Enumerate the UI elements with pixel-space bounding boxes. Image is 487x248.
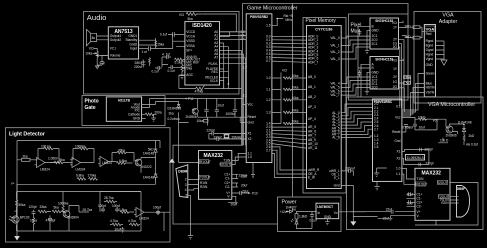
transistor Q5 2N2222 — [135, 159, 152, 169]
svg-text:+12v: +12v — [280, 210, 287, 214]
resistor 15k vertical — [155, 41, 165, 47]
LED D11 power — [291, 219, 298, 226]
wire photogate top rail — [197, 99, 244, 118]
resistor R 1.05k interstage — [48, 157, 73, 164]
ground mic — [180, 74, 185, 79]
wire reset note — [272, 19, 283, 26]
svg-text:ADR_7: ADR_7 — [308, 60, 319, 64]
svg-text:VCi: VCi — [392, 59, 397, 63]
svg-text:MAX232: MAX232 — [422, 171, 442, 177]
capacitor mux bypass a — [358, 29, 362, 36]
svg-text:ISD1420: ISD1420 — [192, 23, 212, 29]
svg-text:20uf: 20uf — [231, 203, 237, 207]
svg-text:SN74HC153: SN74HC153 — [375, 57, 393, 61]
svg-text:6.8ka: 6.8ka — [76, 173, 84, 177]
svg-text:R2IN: R2IN — [441, 201, 449, 205]
wire gnd2/standby net — [139, 38, 173, 49]
svg-text:Gnd: Gnd — [334, 184, 340, 188]
svg-text:BP103: BP103 — [20, 216, 30, 220]
vga adapter section box — [414, 12, 481, 104]
capacitor 220uf mcu bottom — [239, 163, 256, 178]
svg-text:VCi: VCi — [179, 13, 184, 17]
svg-text:2G: 2G — [393, 45, 398, 49]
ground vga serial — [374, 168, 387, 177]
svg-text:AB_2: AB_2 — [308, 95, 316, 99]
svg-text:DB9M: DB9M — [178, 170, 187, 174]
wire photogate bottom rail — [198, 117, 244, 125]
wire serial vga — [402, 168, 415, 184]
svg-text:470ka: 470ka — [195, 89, 204, 93]
svg-text:AL_8: AL_8 — [332, 136, 340, 140]
svg-text:2kD: 2kD — [469, 134, 475, 138]
svg-text:MAX232: MAX232 — [204, 153, 224, 159]
wire agc loop — [179, 75, 242, 89]
wire mux select lines — [358, 26, 370, 97]
svg-text:0.1uf: 0.1uf — [160, 33, 167, 37]
svg-text:1.05kV: 1.05kV — [48, 157, 59, 161]
wire feedback box — [100, 192, 141, 213]
svg-text:VCCA: VCCA — [186, 35, 196, 39]
ground arrow main — [350, 221, 356, 225]
power section box — [278, 197, 342, 232]
capacitor mux bypass b — [358, 70, 362, 77]
GLOBAL WIRES — [15, 211, 357, 226]
svg-text:100pf: 100pf — [153, 206, 161, 210]
svg-text:Pixel Memory: Pixel Memory — [306, 18, 337, 24]
svg-text:2N2222: 2N2222 — [141, 165, 152, 169]
connector J2 VGA — [424, 25, 435, 97]
svg-text:1N4007: 1N4007 — [286, 205, 297, 209]
svg-text:10k D: 10k D — [440, 138, 449, 142]
svg-text:5.1ka: 5.1ka — [175, 61, 183, 65]
svg-text:VSYN: VSYN — [426, 91, 435, 95]
svg-text:2N3906: 2N3906 — [186, 115, 197, 119]
PHOTOGATE INTERNALS — [106, 97, 243, 163]
svg-text:1.8kD: 1.8kD — [299, 215, 308, 219]
wire val4-7 to mux2 — [341, 77, 370, 95]
optocoupler U4 H21LTB — [106, 97, 141, 121]
svg-text:8o: 8o — [92, 36, 96, 40]
svg-text:1G: 1G — [393, 80, 398, 84]
capacitor 20uf v- — [228, 196, 238, 206]
svg-text:Input: Input — [130, 47, 137, 51]
resistor 5.1k mic — [175, 58, 186, 64]
svg-text:10uf: 10uf — [218, 103, 224, 107]
svg-text:Standby: Standby — [125, 38, 137, 42]
svg-text:AP_3: AP_3 — [308, 105, 316, 109]
capacitor 10uf c2 vga — [407, 200, 416, 206]
op-amp U5C LM324 — [98, 157, 117, 167]
svg-text:1.0: 1.0 — [248, 155, 253, 159]
svg-text:2C0: 2C0 — [372, 86, 378, 90]
svg-text:Gnd: Gnd — [248, 121, 254, 125]
wire max232 to db9f — [450, 197, 456, 203]
svg-text:V-: V- — [417, 214, 420, 218]
svg-text:Light Detector: Light Detector — [9, 132, 45, 138]
svg-text:VSSD: VSSD — [186, 39, 195, 43]
svg-text:GND: GND — [324, 215, 332, 219]
svg-text:28.7ka: 28.7ka — [104, 196, 114, 200]
svg-text:VGA Microcontroller: VGA Microcontroller — [428, 102, 475, 108]
svg-text:T1IN: T1IN — [417, 177, 425, 181]
svg-text:1.5: 1.5 — [266, 24, 271, 28]
wire green blue sync — [402, 74, 425, 117]
pixel memory section box — [303, 18, 346, 194]
connector J3 DB9F — [457, 186, 470, 218]
svg-text:4. 7uf: 4. 7uf — [162, 53, 170, 57]
svg-text:1.1: 1.1 — [396, 172, 401, 176]
svg-text:Hgnd: Hgnd — [426, 53, 434, 57]
wire mid rail — [17, 184, 156, 190]
transistor Q3 2N3906 — [186, 108, 199, 119]
capacitor C 1uf input — [142, 46, 156, 54]
resistor RN 10k pullup4 — [272, 107, 307, 114]
svg-text:SN74HC153: SN74HC153 — [375, 19, 393, 23]
POWER INTERNALS — [280, 203, 367, 228]
svg-text:X2: X2 — [396, 156, 400, 160]
svg-text:10ka: 10ka — [85, 52, 92, 56]
capacitor 20uf c2 — [232, 183, 248, 187]
wire reset net — [415, 119, 464, 134]
wire pot to volume pin — [97, 55, 108, 66]
op-amp U5A LM324 — [35, 158, 51, 172]
svg-text:DB9F: DB9F — [457, 187, 465, 191]
svg-text:2C1: 2C1 — [372, 42, 378, 46]
audio section box — [84, 12, 240, 95]
svg-text:10ka: 10ka — [197, 119, 204, 123]
wire xtal gnd — [208, 134, 210, 140]
resistor RN 10k pullup3 — [272, 96, 307, 101]
svg-text:5ka: 5ka — [188, 17, 193, 21]
capacitor via 0.2uf — [464, 142, 478, 146]
SECTION_POWER — [278, 197, 342, 232]
svg-text:AB_1: AB_1 — [308, 85, 316, 89]
svg-text:10ka: 10ka — [292, 74, 299, 78]
svg-text:AP_4: AP_4 — [308, 117, 316, 121]
svg-text:0.7: 0.7 — [266, 59, 271, 63]
PIXEL MEMORY INTERNALS — [307, 26, 378, 217]
ground below max232 — [188, 232, 193, 240]
svg-text:2ka: 2ka — [23, 155, 28, 159]
svg-text:10ka: 10ka — [292, 96, 299, 100]
resistor RN 10k pullup5 — [272, 119, 307, 125]
svg-text:28.7ka: 28.7ka — [82, 208, 92, 212]
ground mux2 — [365, 72, 370, 94]
resistor R 1.5k term b — [403, 81, 411, 85]
svg-text:1N4148: 1N4148 — [143, 176, 154, 180]
svg-text:A7: A7 — [214, 56, 218, 60]
capacitor 220pf xtal bottom — [402, 150, 434, 167]
svg-text:GND: GND — [133, 117, 141, 121]
resistor R cathode 200 — [142, 110, 162, 115]
svg-text:GND: GND — [372, 29, 380, 33]
resistor R 2k red b — [399, 28, 423, 39]
svg-text:C2-: C2- — [417, 205, 422, 209]
svg-text:Bgnd: Bgnd — [426, 44, 434, 48]
dual-port RAM U7 CY7C136 — [307, 26, 342, 189]
svg-text:20MHz: 20MHz — [232, 135, 243, 139]
wire PLAYL to mcu — [220, 64, 247, 89]
power arrow serial — [169, 159, 175, 163]
capacitor 220pf xtal1 — [207, 129, 247, 136]
IC U11 MAX232 — [415, 168, 450, 220]
diode D10 1N4007 — [280, 205, 297, 214]
capacitor 22uf v+ — [232, 189, 258, 195]
capacitor 22uf c1 — [232, 174, 248, 178]
crystal Y2 11.0592MHz — [405, 155, 424, 161]
wire regulator out — [339, 211, 366, 213]
svg-text:VAL_3: VAL_3 — [330, 57, 340, 61]
op-amp U5D LM324 — [134, 208, 152, 221]
svg-text:SP+: SP+ — [186, 48, 192, 52]
wire serial to MAX232 — [232, 153, 246, 164]
svg-text:R2IN: R2IN — [200, 185, 208, 189]
wire bus P0 to pixel memory — [272, 36, 307, 62]
wire r2out loop — [415, 183, 478, 226]
svg-text:0.1uf: 0.1uf — [310, 218, 317, 222]
resistor R 6.8k — [117, 159, 133, 165]
svg-text:10ka: 10ka — [292, 109, 299, 113]
wire xtal X1 X2 — [245, 134, 247, 139]
photo gate section box — [82, 96, 165, 126]
VGA MCU INTERNALS — [341, 99, 478, 225]
svg-text:Vcc: Vcc — [248, 103, 254, 107]
SECTION_VGAMCU — [347, 97, 484, 230]
resistor R 5k top — [186, 13, 202, 22]
wire mux vcc stubs — [399, 21, 404, 61]
capacitor 220pf xtal top — [402, 147, 433, 151]
resistor R 4.7k b — [128, 219, 140, 226]
wire vga grounds — [436, 41, 445, 60]
wire collector rail — [141, 141, 156, 185]
diode D9 IN4148 — [458, 120, 472, 134]
svg-text:1000uf: 1000uf — [226, 112, 236, 116]
svg-text:X1: X1 — [248, 132, 252, 136]
svg-text:PLAYL: PLAYL — [209, 62, 219, 66]
capacitor 220pf xtal2 — [209, 135, 246, 141]
resistor R 10k base — [438, 138, 449, 143]
diode D 1N4148 lower — [143, 171, 157, 180]
svg-text:1N4148: 1N4148 — [143, 152, 154, 156]
svg-text:Vo: Vo — [334, 211, 338, 215]
resistor 1k vertical — [149, 58, 151, 66]
mux U9 SN74HC153 — [370, 57, 399, 90]
wire mic nets — [162, 57, 185, 67]
svg-text:XCLK: XCLK — [210, 79, 219, 83]
capacitor 0.1uf power — [310, 212, 317, 223]
svg-text:Reset: Reset — [392, 130, 400, 134]
capacitor 10uf c1 vga — [407, 192, 416, 198]
SECTION_VGAADAPT — [414, 12, 481, 104]
svg-text:1.1: 1.1 — [266, 88, 271, 92]
svg-text:4700pf: 4700pf — [46, 219, 56, 223]
wire vcc to pot — [94, 49, 98, 52]
svg-text:V-: V- — [227, 195, 230, 199]
svg-text:B: B — [372, 24, 374, 28]
wire bp103 junction — [15, 210, 18, 212]
vga microcontroller section box — [347, 97, 484, 230]
svg-text:GND: GND — [372, 70, 380, 74]
svg-text:22uf: 22uf — [241, 175, 247, 179]
svg-text:AB_0: AB_0 — [308, 75, 316, 79]
svg-text:VCi: VCi — [392, 21, 397, 25]
GAME MCU INTERNALS — [169, 14, 307, 239]
capacitor .1uf — [97, 55, 108, 65]
middle group top border — [293, 4, 409, 15]
capacitor 220uf coupling — [134, 60, 145, 70]
wire ram gnd — [341, 171, 377, 217]
svg-text:E_W: E_W — [308, 176, 315, 180]
svg-text:22uf: 22uf — [242, 189, 248, 193]
capacitor 0.1uf VCCD — [160, 32, 184, 37]
svg-text:P10: P10 — [252, 191, 258, 195]
wire bottom rail — [17, 212, 170, 231]
svg-text:1.5: 1.5 — [374, 145, 379, 149]
diode D 1N4148 upper — [143, 146, 157, 156]
wire mcu left stubs — [240, 105, 246, 123]
wire top rail — [17, 141, 160, 232]
svg-text:AGC: AGC — [186, 73, 194, 77]
resistor R 1.5k term a — [403, 75, 411, 79]
svg-text:1.0: 1.0 — [266, 76, 271, 80]
ground photogate — [142, 114, 156, 121]
svg-text:220pf: 220pf — [426, 162, 434, 166]
svg-text:HSYN: HSYN — [426, 86, 436, 90]
ground vga mcu — [374, 181, 379, 190]
crystal Y1 20MHz — [223, 134, 242, 140]
svg-text:CY7C136: CY7C136 — [315, 27, 333, 32]
svg-text:2G: 2G — [393, 85, 398, 89]
svg-text:Red: Red — [426, 32, 432, 36]
regulator U12 LM7805CT — [316, 203, 339, 219]
svg-text:D1N4148: D1N4148 — [168, 106, 182, 110]
svg-text:Vcc: Vcc — [395, 116, 401, 120]
capacitor 0.1uf lower — [152, 66, 162, 74]
second stage rail — [17, 192, 141, 232]
svg-text:VCi: VCi — [282, 69, 287, 73]
svg-text:10uf: 10uf — [419, 125, 425, 129]
wire speaker to U2 — [97, 36, 109, 40]
svg-text:Rgnd: Rgnd — [426, 39, 434, 43]
microcontroller U10 P89V51RBC — [373, 99, 402, 181]
wire A3-A7 vertical stubs — [224, 43, 246, 145]
resistor R 10k vertical — [30, 215, 37, 231]
resistor R 10k reset — [402, 115, 438, 122]
resistor R 1.8k power — [295, 212, 308, 220]
svg-text:5ka: 5ka — [54, 206, 59, 210]
ground vga — [441, 60, 447, 65]
svg-text:0.2ufnos: 0.2ufnos — [168, 117, 181, 121]
svg-text:2ka: 2ka — [169, 112, 174, 116]
svg-text:C2-: C2- — [225, 185, 230, 189]
capacitor 0.1uf mic — [168, 65, 176, 73]
svg-text:X1: X1 — [396, 150, 400, 154]
svg-text:LM324: LM324 — [40, 168, 50, 172]
wire 12v to regulator — [296, 211, 316, 213]
capacitor 0.2uf photogate — [168, 116, 199, 162]
svg-text:.1 uf: .1 uf — [98, 61, 104, 65]
resistor R 4.7k a — [110, 219, 123, 226]
svg-text:Output2: Output2 — [110, 38, 122, 42]
wire vcc rail right and down — [203, 14, 237, 32]
microcontroller U1 P89V51RB2 — [246, 14, 272, 163]
svg-text:Audio: Audio — [87, 13, 107, 22]
ground audio pot — [95, 66, 99, 69]
resistor R 2k input — [17, 155, 37, 162]
svg-text:VGA: VGA — [426, 27, 435, 32]
svg-text:X2: X2 — [248, 137, 252, 141]
node P11 — [179, 97, 197, 101]
SECTION_GAMEMCU — [173, 4, 408, 225]
SECTION_PIXELMEM — [303, 18, 346, 194]
svg-text:VAL_0: VAL_0 — [330, 36, 340, 40]
resistor R 33k — [38, 205, 51, 213]
svg-text:VGA: VGA — [442, 13, 454, 19]
wire VSSD VSSA rail — [173, 34, 186, 48]
wire db9m to max232 — [188, 179, 199, 231]
svg-text:R2OUT: R2OUT — [437, 181, 448, 185]
svg-text:2.7: 2.7 — [374, 127, 379, 131]
svg-text:E_L: E_L — [334, 176, 340, 180]
svg-text:3.1: 3.1 — [243, 94, 248, 98]
svg-text:VAL_2: VAL_2 — [330, 50, 340, 54]
wire control lines to pixel memory — [272, 147, 307, 178]
capacitor 220uf ram — [341, 166, 355, 173]
svg-text:1.3: 1.3 — [266, 111, 271, 115]
capacitor 10uf bottom — [115, 227, 125, 232]
resistor R 2k vga — [463, 134, 475, 142]
svg-text:50ka: 50ka — [19, 203, 26, 207]
resistor RN 10k pullup1 — [272, 74, 307, 79]
svg-text:1.7: 1.7 — [243, 66, 248, 70]
svg-text:1.0: 1.0 — [396, 167, 401, 171]
svg-text:5: 5 — [186, 193, 188, 197]
wires A0-A2 to MCU — [220, 32, 247, 39]
resistor R 100k feedback1 — [38, 145, 59, 163]
connector J1 DB9M — [176, 165, 188, 198]
svg-text:VC1: VC1 — [110, 47, 116, 51]
svg-text:4.7ka: 4.7ka — [110, 219, 118, 223]
svg-text:LM7805CT: LM7805CT — [317, 205, 333, 209]
svg-text:v+: v+ — [11, 182, 15, 186]
wire ISD supply pins — [220, 32, 237, 37]
svg-text:0.1uf: 0.1uf — [152, 70, 159, 74]
svg-text:10ka: 10ka — [292, 120, 299, 124]
wire AL bus into mcu — [341, 104, 372, 138]
svg-text:Game Microcontroller: Game Microcontroller — [247, 6, 298, 12]
IC U6 MAX232 — [199, 151, 232, 200]
svg-text:4.7ka: 4.7ka — [128, 219, 136, 223]
resistor R 1.8k — [119, 208, 134, 214]
svg-text:10ka: 10ka — [292, 86, 299, 90]
resistor RN 10k pullup2 — [272, 86, 307, 91]
svg-text:Reset: Reset — [248, 115, 256, 119]
resistor R 30k — [112, 149, 134, 162]
ground power — [325, 219, 330, 225]
svg-text:REC: REC — [211, 70, 218, 74]
resistor 470k mic bias — [181, 65, 192, 74]
wire power bottom — [297, 219, 313, 228]
wire input line — [139, 48, 149, 50]
potentiometer R volume 10k — [85, 51, 98, 57]
SECTION_PHOTOGATE — [82, 96, 165, 126]
capacitor 100pf out — [153, 206, 161, 216]
resistor R 28.7k left — [79, 206, 92, 213]
svg-text:3: 3 — [185, 183, 187, 187]
wire left vertical lower — [16, 184, 18, 191]
GAME CRYSTAL AREA — [207, 129, 247, 141]
svg-text:C1-: C1- — [225, 177, 230, 181]
